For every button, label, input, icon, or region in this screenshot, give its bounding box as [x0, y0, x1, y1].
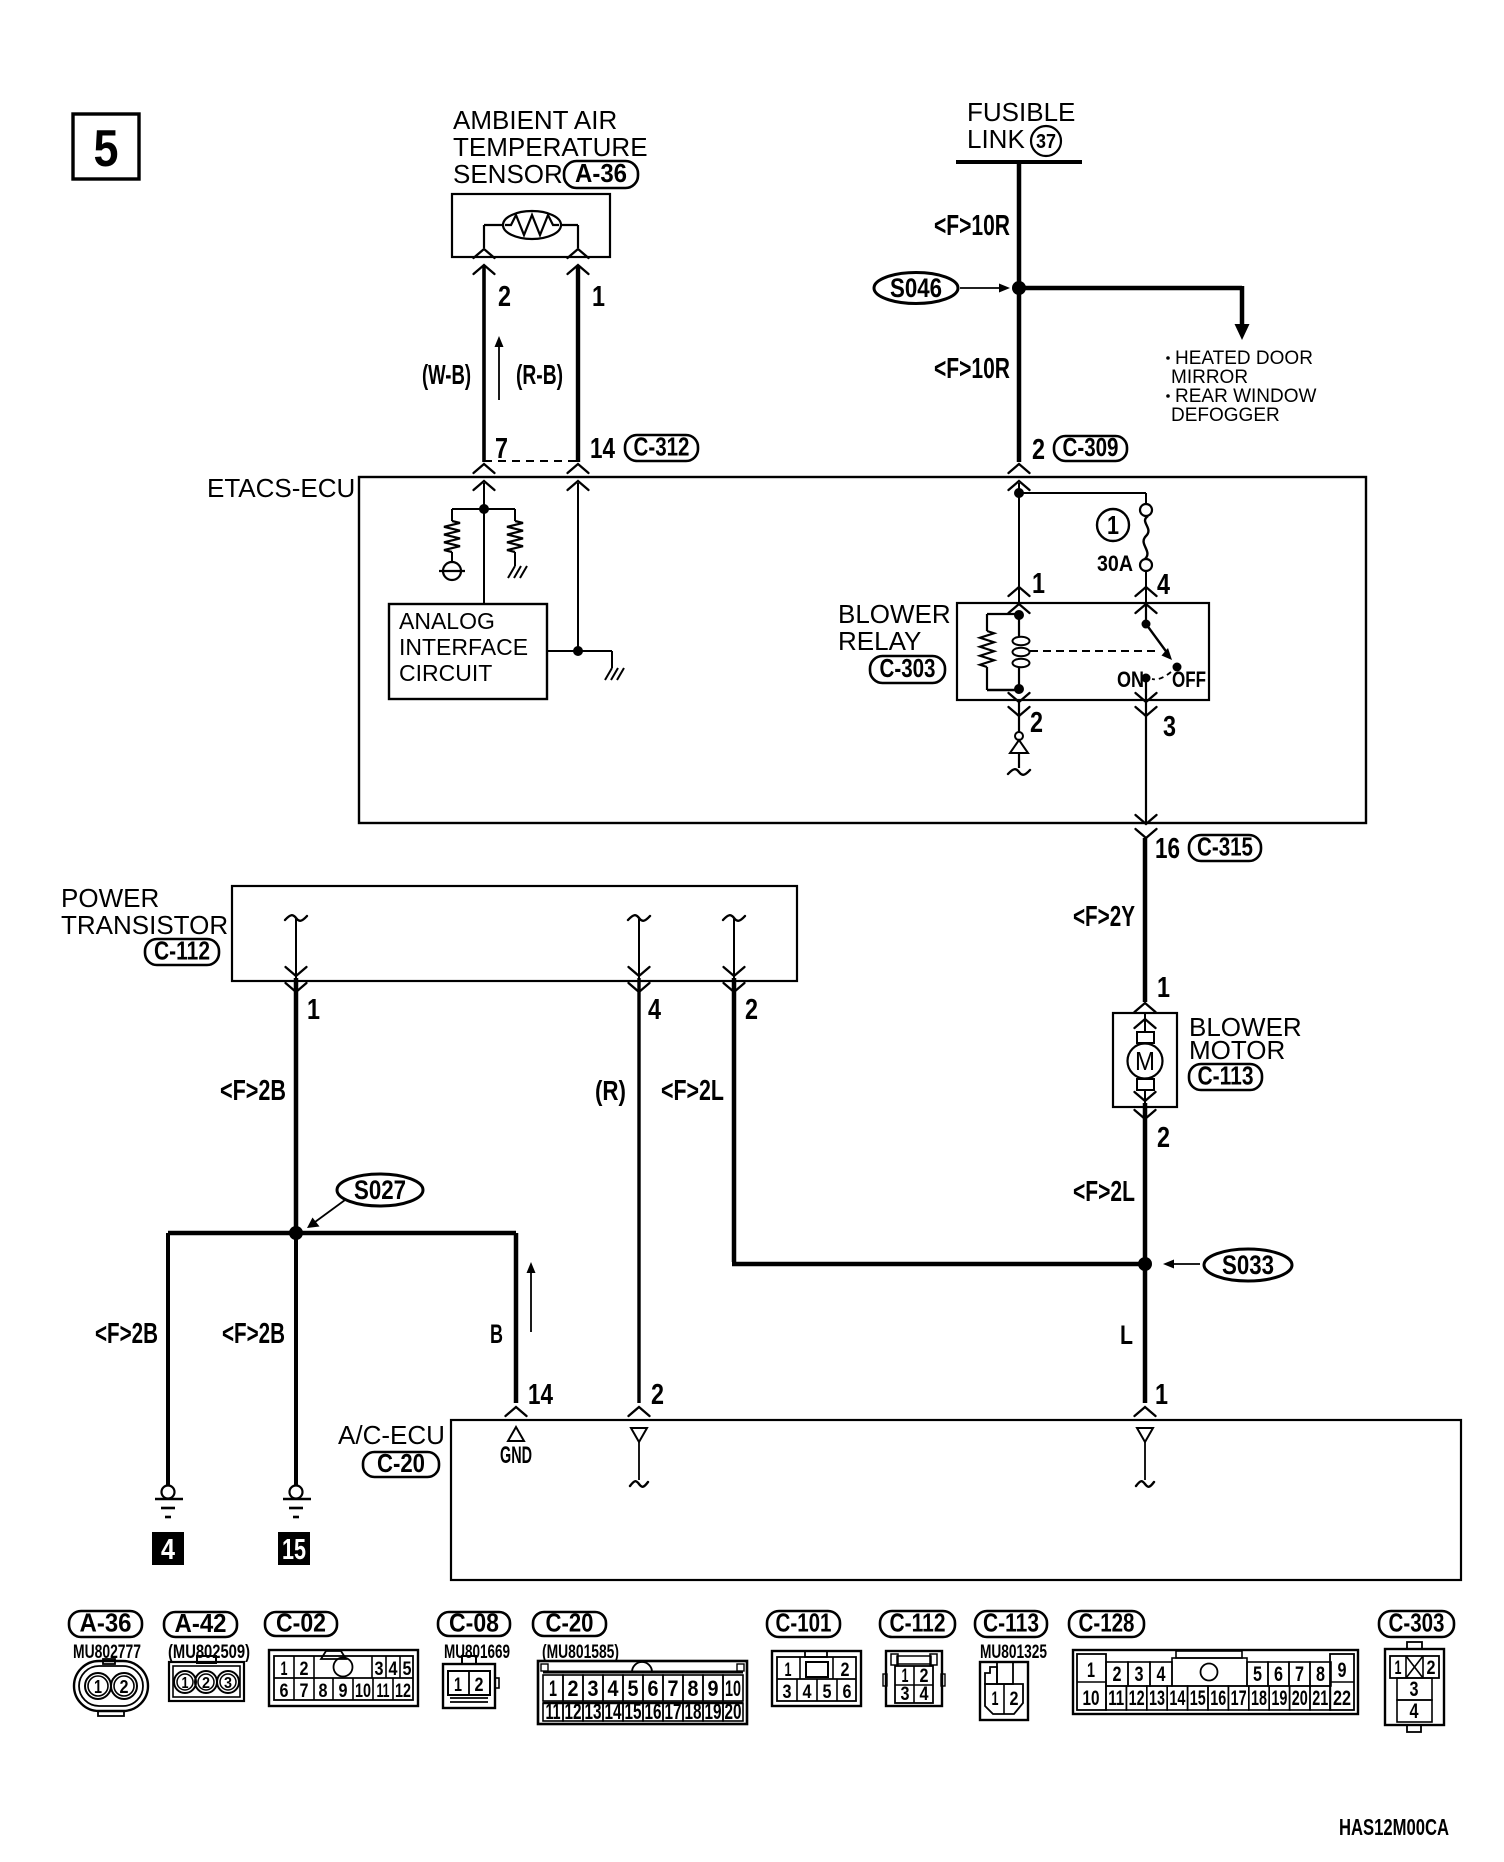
connector tag C-315	[1189, 832, 1261, 862]
wire F2B from power transistor	[294, 978, 299, 1233]
wire into analog interface circuit	[483, 483, 485, 604]
connector tag A-42 bottom	[164, 1608, 237, 1638]
svg-text:12: 12	[1129, 1687, 1145, 1710]
svg-text:DEFOGGER: DEFOGGER	[1171, 405, 1280, 426]
arrow S027 to junction	[307, 1200, 345, 1228]
wire L to AC-ECU	[1143, 1264, 1148, 1403]
svg-text:6: 6	[648, 1676, 659, 1701]
svg-text:<F>10R: <F>10R	[934, 210, 1010, 242]
connector tag C-113 motor	[1189, 1061, 1262, 1091]
svg-text:6: 6	[1274, 1663, 1283, 1686]
ambient air temperature sensor label	[453, 105, 648, 189]
branch wire to circuit breaker	[1019, 493, 1146, 504]
svg-text:15: 15	[625, 1699, 642, 1724]
svg-text:4: 4	[920, 1684, 929, 1705]
svg-text:C-113: C-113	[983, 1608, 1039, 1638]
svg-text:9: 9	[708, 1676, 719, 1701]
svg-text:16: 16	[1155, 833, 1180, 865]
svg-text:18: 18	[1251, 1687, 1267, 1710]
svg-text:C-20: C-20	[377, 1448, 425, 1478]
connector tag C-113 bottom	[975, 1608, 1047, 1638]
arrow S033 to junction	[1163, 1260, 1200, 1269]
svg-text:14: 14	[528, 1379, 553, 1411]
connector tag C-303 bottom	[1379, 1608, 1454, 1638]
wire relay pin4 entry	[1145, 604, 1147, 624]
connector tag C-128 bottom	[1069, 1608, 1144, 1638]
svg-text:<F>10R: <F>10R	[934, 353, 1010, 385]
svg-text:10: 10	[1083, 1687, 1100, 1710]
svg-text:C-02: C-02	[276, 1608, 326, 1638]
thermistor RT1	[503, 211, 561, 239]
svg-text:2: 2	[745, 994, 758, 1026]
AC-ECU box C-20	[451, 1420, 1461, 1580]
svg-text:C-113: C-113	[1198, 1061, 1254, 1091]
svg-text:REAR WINDOW: REAR WINDOW	[1175, 386, 1317, 407]
svg-text:5: 5	[823, 1682, 832, 1703]
junction node S046	[1012, 281, 1026, 295]
wire battery feed upper	[1017, 164, 1022, 288]
net triangle pin1	[1136, 1428, 1154, 1487]
connector face C-113	[980, 1662, 1028, 1720]
svg-text:<F>2B: <F>2B	[95, 1318, 158, 1350]
junction node S033	[1138, 1257, 1152, 1271]
svg-text:2: 2	[1010, 1689, 1019, 1710]
splice oval S027	[337, 1174, 423, 1206]
pin arrows into blower relay	[1009, 587, 1157, 613]
sheet number box 5	[73, 114, 139, 179]
wire stub 2 in power transistor	[723, 915, 745, 981]
relay coil lower junction	[1014, 684, 1024, 694]
svg-text:19: 19	[1271, 1687, 1287, 1710]
svg-text:S046: S046	[890, 273, 942, 303]
connector tag C-101 bottom	[767, 1608, 840, 1638]
svg-text:2: 2	[1032, 434, 1045, 466]
pin arrows out of blower relay	[1009, 693, 1157, 716]
dashed connector grouping line C-312	[484, 460, 578, 462]
svg-text:12: 12	[395, 1681, 411, 1702]
svg-text:4: 4	[1410, 1700, 1419, 1723]
junction node breaker branch	[1014, 488, 1024, 498]
connector face C-112	[883, 1651, 945, 1706]
wire continuation squiggle relay ground	[1008, 769, 1030, 775]
svg-text:14: 14	[590, 433, 615, 465]
circled 37	[1031, 126, 1061, 156]
wire R-B from sensor pin 1	[576, 266, 580, 462]
svg-text:FUSIBLE: FUSIBLE	[967, 97, 1075, 127]
reference source symbol	[439, 562, 465, 580]
svg-text:(R): (R)	[595, 1075, 626, 1106]
fusible link label	[967, 97, 1075, 154]
svg-text:8: 8	[688, 1676, 699, 1701]
wire relay pin2 to body ground	[1010, 700, 1028, 768]
connector tag C-309	[1054, 432, 1127, 462]
ground symbol 15	[283, 1486, 311, 1518]
svg-text:30A: 30A	[1097, 551, 1133, 576]
connector tag C-20 label	[363, 1448, 439, 1478]
pin arrows out of blower motor	[1135, 1092, 1156, 1119]
wire F2L from power transistor	[732, 978, 1145, 1264]
svg-text:5: 5	[1253, 1663, 1262, 1686]
pull-up resistor left	[444, 509, 460, 562]
svg-text:10: 10	[355, 1681, 371, 1702]
pin arrows into ETACS-ECU from sensor	[474, 464, 589, 490]
svg-text:13: 13	[585, 1699, 602, 1724]
svg-text:B: B	[490, 1319, 503, 1349]
svg-text:11: 11	[1108, 1687, 1124, 1710]
circled 1 breaker id	[1097, 509, 1129, 541]
svg-text:3: 3	[901, 1684, 910, 1705]
blower motor label	[1189, 1012, 1302, 1065]
svg-text:C-128: C-128	[1079, 1608, 1135, 1638]
relay coil feed junction	[1014, 610, 1024, 620]
svg-text:2: 2	[1030, 707, 1043, 739]
connector tag C-303 relay	[870, 653, 945, 683]
relay switch	[1142, 620, 1182, 701]
wire W-B from sensor pin 2	[482, 266, 486, 462]
svg-text:<F>2Y: <F>2Y	[1073, 901, 1135, 933]
power transistor box C-112	[232, 886, 797, 981]
connector tag C-112 label	[145, 936, 219, 966]
svg-text:AMBIENT AIR: AMBIENT AIR	[453, 105, 617, 135]
svg-text:5: 5	[628, 1676, 639, 1701]
svg-text:C-20: C-20	[546, 1608, 594, 1638]
analog interface circuit box	[389, 604, 547, 699]
divider branch wire	[452, 508, 515, 510]
svg-text:13: 13	[1149, 1687, 1165, 1710]
relay coil	[1013, 615, 1030, 690]
wire to ground 15	[294, 1233, 298, 1486]
svg-text:(MU802509): (MU802509)	[168, 1642, 250, 1663]
svg-text:A-36: A-36	[80, 1608, 132, 1638]
fusible link bus bar	[956, 160, 1082, 164]
svg-text:1: 1	[592, 281, 605, 313]
connector face A-42	[169, 1656, 244, 1701]
svg-text:9: 9	[1338, 1659, 1347, 1682]
svg-text:4: 4	[803, 1682, 812, 1703]
wire F2Y to blower motor	[1143, 838, 1148, 1002]
connector tag C-312	[625, 432, 698, 462]
svg-text:4: 4	[161, 1534, 175, 1566]
svg-text:ETACS-ECU: ETACS-ECU	[207, 473, 355, 503]
svg-text:7: 7	[668, 1676, 679, 1701]
svg-text:M: M	[1135, 1046, 1155, 1076]
svg-text:1: 1	[94, 1677, 102, 1697]
svg-text:CIRCUIT: CIRCUIT	[399, 660, 492, 686]
svg-text:11: 11	[546, 1699, 561, 1724]
svg-text:5: 5	[94, 120, 119, 178]
ground id box 15	[278, 1532, 310, 1566]
svg-text:S027: S027	[354, 1175, 406, 1205]
connector face C-20	[538, 1661, 747, 1724]
ground id box 4	[152, 1532, 184, 1566]
svg-text:LINK: LINK	[967, 124, 1025, 154]
svg-text:1: 1	[1395, 1658, 1402, 1679]
svg-text:<F>2L: <F>2L	[661, 1075, 724, 1107]
svg-text:8: 8	[1316, 1663, 1325, 1686]
svg-text:4: 4	[648, 994, 661, 1026]
splice oval S046	[874, 273, 958, 304]
pin arrow into AC-ECU right	[1135, 1407, 1156, 1416]
svg-text:19: 19	[705, 1699, 722, 1724]
svg-text:<F>2B: <F>2B	[220, 1075, 286, 1107]
svg-text:3: 3	[588, 1676, 599, 1701]
svg-text:ANALOG: ANALOG	[399, 608, 495, 634]
svg-text:1: 1	[1032, 568, 1045, 600]
svg-text:MIRROR: MIRROR	[1171, 367, 1248, 388]
blower relay box C-303	[957, 603, 1209, 700]
net triangle pin2	[630, 1428, 648, 1487]
svg-text:1: 1	[1157, 972, 1170, 1004]
svg-text:15: 15	[1190, 1687, 1206, 1710]
svg-text:4: 4	[608, 1676, 620, 1701]
svg-text:12: 12	[565, 1699, 582, 1724]
svg-text:HAS12M00CA: HAS12M00CA	[1339, 1814, 1449, 1840]
svg-text:1: 1	[549, 1676, 557, 1701]
relay actuation dashed link	[1030, 650, 1160, 652]
wire sensor pin1 lead	[561, 225, 578, 248]
svg-text:6: 6	[280, 1681, 289, 1702]
svg-text:14: 14	[1169, 1687, 1185, 1710]
connector tag C-112 bottom	[880, 1608, 955, 1638]
svg-text:RELAY: RELAY	[838, 626, 921, 656]
svg-text:S033: S033	[1222, 1250, 1274, 1280]
wire breaker to relay pin4	[1145, 571, 1147, 604]
svg-text:6: 6	[843, 1682, 852, 1703]
chassis ground right resistor	[508, 566, 527, 578]
svg-text:14: 14	[605, 1699, 623, 1724]
branch wire to heated door mirror	[1019, 286, 1250, 340]
GND terminal triangle	[500, 1427, 532, 1469]
wire stub 1 in power transistor	[285, 915, 307, 981]
svg-text:2: 2	[1113, 1663, 1122, 1686]
svg-text:A-36: A-36	[575, 158, 627, 188]
pin arrow into AC-ECU pin2	[629, 1407, 650, 1416]
ground bus wire	[168, 1231, 516, 1236]
svg-text:C-309: C-309	[1063, 432, 1119, 462]
svg-text:INTERFACE: INTERFACE	[399, 634, 528, 660]
svg-text:1: 1	[785, 1660, 792, 1681]
pin arrow into AC-ECU pin14	[506, 1407, 527, 1416]
connector face C-303	[1385, 1642, 1444, 1732]
wire B to AC-ECU	[514, 1233, 519, 1403]
svg-text:2: 2	[120, 1677, 129, 1697]
svg-text:2: 2	[1157, 1122, 1170, 1154]
svg-text:3: 3	[224, 1675, 232, 1692]
junction node S027	[289, 1226, 303, 1240]
connector face A-36	[74, 1659, 148, 1716]
svg-text:3: 3	[1163, 711, 1176, 743]
svg-text:C-303: C-303	[880, 653, 936, 683]
svg-text:<F>2L: <F>2L	[1073, 1176, 1135, 1208]
svg-text:2: 2	[651, 1379, 664, 1411]
wire sensor pin2 lead	[484, 225, 503, 248]
connector face C-101	[772, 1651, 861, 1706]
svg-text:A-42: A-42	[175, 1608, 227, 1638]
svg-text:3: 3	[1410, 1678, 1419, 1701]
connector tag C-20 bottom	[533, 1608, 606, 1638]
svg-text:16: 16	[645, 1699, 662, 1724]
svg-text:POWER: POWER	[61, 883, 159, 913]
svg-text:2: 2	[475, 1675, 484, 1696]
connector tag C-02 bottom	[265, 1608, 337, 1638]
svg-text:16: 16	[1210, 1687, 1226, 1710]
ground symbol 4	[155, 1486, 183, 1518]
svg-text:7: 7	[300, 1681, 309, 1702]
svg-text:BLOWER: BLOWER	[838, 599, 951, 629]
svg-text:1: 1	[1155, 1379, 1168, 1411]
svg-text:1: 1	[992, 1689, 999, 1710]
current direction arrow B	[527, 1262, 536, 1332]
svg-text:1: 1	[182, 1675, 189, 1692]
wire fusible to relay pin1	[1018, 483, 1020, 604]
svg-text:17: 17	[665, 1699, 682, 1724]
svg-text:3: 3	[783, 1682, 792, 1703]
blower motor M	[1128, 1013, 1163, 1107]
svg-text:C-112: C-112	[154, 936, 210, 966]
splice oval S033	[1204, 1249, 1292, 1281]
svg-text:A/C-ECU: A/C-ECU	[338, 1420, 445, 1450]
arrow S046 to junction	[960, 284, 1010, 293]
chassis ground analog	[605, 668, 624, 680]
svg-text:3: 3	[1135, 1663, 1144, 1686]
svg-text:21: 21	[1312, 1687, 1328, 1710]
svg-text:20: 20	[725, 1699, 742, 1724]
svg-text:4: 4	[1157, 569, 1170, 601]
wire relay pin3 inside ETACS	[1145, 700, 1147, 822]
svg-text:11: 11	[377, 1681, 390, 1702]
svg-text:MU801325: MU801325	[980, 1642, 1047, 1663]
svg-text:C-303: C-303	[1389, 1608, 1445, 1638]
svg-text:3: 3	[375, 1659, 384, 1680]
circuit breaker 1 30A	[1140, 504, 1152, 571]
blower relay label	[838, 599, 951, 656]
power transistor label	[61, 883, 228, 940]
wire F2L from blower motor	[1143, 1103, 1148, 1264]
svg-text:15: 15	[282, 1534, 306, 1566]
svg-text:8: 8	[319, 1681, 328, 1702]
svg-text:5: 5	[403, 1659, 412, 1680]
connector face C-128	[1073, 1650, 1358, 1714]
svg-text:2: 2	[841, 1660, 850, 1681]
svg-text:7: 7	[1295, 1663, 1304, 1686]
connector tag A-36 bottom	[69, 1608, 142, 1638]
wire analog box to ground	[547, 651, 612, 668]
wire stub 4 in power transistor	[628, 915, 650, 981]
svg-text:10: 10	[725, 1676, 741, 1701]
svg-text:1: 1	[454, 1675, 462, 1696]
svg-text:GND: GND	[500, 1442, 532, 1469]
wire battery feed lower	[1017, 288, 1022, 462]
svg-text:C-112: C-112	[890, 1608, 946, 1638]
pin arrows out of ETACS-ECU	[1136, 815, 1157, 838]
svg-text:9: 9	[339, 1681, 348, 1702]
svg-text:2: 2	[300, 1659, 309, 1680]
svg-text:17: 17	[1231, 1687, 1247, 1710]
svg-text:18: 18	[685, 1699, 702, 1724]
svg-text:2: 2	[1427, 1658, 1436, 1679]
ETACS-ECU box	[359, 477, 1366, 823]
svg-text:1: 1	[1087, 1659, 1095, 1682]
svg-text:4: 4	[1157, 1663, 1166, 1686]
svg-text:L: L	[1120, 1320, 1133, 1350]
connector face C-08	[443, 1656, 499, 1708]
connector face C-02	[269, 1650, 418, 1706]
junction node analog ground	[573, 646, 583, 656]
svg-text:ON: ON	[1117, 667, 1144, 692]
svg-text:C-312: C-312	[634, 432, 690, 462]
connector tag C-08 bottom	[438, 1608, 510, 1638]
wire to ground 4	[166, 1233, 170, 1486]
junction node divider top	[479, 504, 489, 514]
connector pin arrows at sensor	[474, 249, 589, 274]
svg-text:HEATED DOOR: HEATED DOOR	[1175, 348, 1313, 369]
svg-text:2: 2	[202, 1675, 210, 1692]
heated door mirror / rear window defogger note	[1166, 348, 1316, 426]
svg-text:C-101: C-101	[776, 1608, 832, 1638]
svg-text:(W-B): (W-B)	[422, 359, 471, 390]
connector tag A-36	[564, 158, 638, 188]
wire R to AC-ECU	[637, 978, 640, 1403]
pin arrows out of power transistor	[286, 967, 745, 992]
svg-text:1: 1	[281, 1659, 288, 1680]
blower motor box C-113	[1113, 1013, 1177, 1107]
svg-text:OFF: OFF	[1172, 667, 1206, 692]
svg-text:22: 22	[1333, 1687, 1351, 1710]
pin arrows into blower motor	[1135, 1003, 1156, 1028]
svg-text:<F>2B: <F>2B	[222, 1318, 285, 1350]
svg-text:C-315: C-315	[1197, 832, 1253, 862]
svg-text:20: 20	[1292, 1687, 1308, 1710]
pull-down resistor right	[507, 509, 523, 566]
svg-text:2: 2	[568, 1676, 579, 1701]
svg-text:37: 37	[1036, 131, 1056, 153]
wire from pin 14 to ground net	[577, 483, 579, 651]
svg-text:4: 4	[389, 1659, 398, 1680]
svg-text:1: 1	[307, 994, 320, 1026]
svg-text:1: 1	[1107, 510, 1119, 540]
sensor A-36 box	[452, 194, 610, 257]
svg-text:2: 2	[498, 281, 511, 313]
svg-text:(R-B): (R-B)	[516, 359, 563, 390]
svg-text:C-08: C-08	[449, 1608, 499, 1638]
current direction arrow	[495, 336, 504, 400]
svg-text:SENSOR: SENSOR	[453, 159, 563, 189]
relay shunt resistor	[980, 614, 1019, 690]
pin arrows into ETACS-ECU from fusible link	[1009, 464, 1030, 490]
